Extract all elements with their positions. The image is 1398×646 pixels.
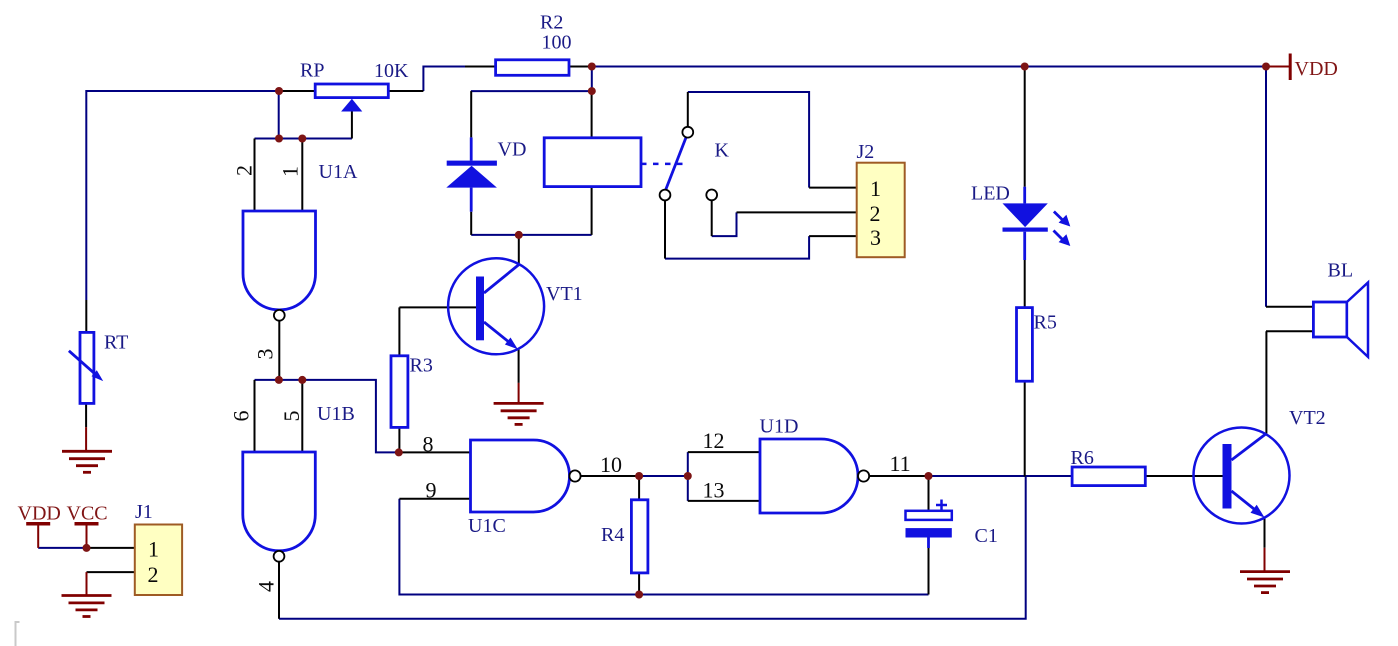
svg-text:VCC: VCC bbox=[67, 503, 108, 525]
svg-text:2: 2 bbox=[148, 562, 159, 587]
svg-text:2: 2 bbox=[232, 165, 257, 176]
svg-text:6: 6 bbox=[229, 411, 254, 422]
svg-text:1: 1 bbox=[278, 166, 303, 177]
svg-text:12: 12 bbox=[703, 428, 725, 453]
svg-text:11: 11 bbox=[890, 451, 911, 476]
svg-text:U1C: U1C bbox=[468, 515, 506, 537]
svg-text:3: 3 bbox=[870, 225, 881, 250]
svg-text:R4: R4 bbox=[601, 524, 624, 546]
svg-text:J2: J2 bbox=[857, 141, 875, 163]
svg-text:RP: RP bbox=[300, 60, 324, 82]
svg-text:8: 8 bbox=[423, 432, 434, 457]
svg-text:BL: BL bbox=[1328, 260, 1354, 282]
svg-text:U1B: U1B bbox=[317, 403, 355, 425]
svg-text:J1: J1 bbox=[135, 501, 153, 523]
svg-text:10: 10 bbox=[600, 452, 622, 477]
svg-text:5: 5 bbox=[279, 411, 304, 422]
svg-text:RT: RT bbox=[104, 332, 128, 354]
svg-text:VD: VD bbox=[498, 139, 527, 161]
svg-text:10K: 10K bbox=[374, 60, 409, 82]
svg-text:VDD: VDD bbox=[18, 503, 61, 525]
svg-text:C1: C1 bbox=[975, 525, 998, 547]
svg-text:R6: R6 bbox=[1071, 447, 1094, 469]
svg-text:2: 2 bbox=[870, 201, 881, 226]
svg-text:1: 1 bbox=[870, 176, 881, 201]
svg-text:13: 13 bbox=[703, 478, 725, 503]
svg-text:1: 1 bbox=[148, 537, 159, 562]
svg-text:R5: R5 bbox=[1034, 312, 1057, 334]
svg-text:4: 4 bbox=[254, 581, 279, 592]
svg-text:LED: LED bbox=[971, 183, 1010, 205]
svg-text:R3: R3 bbox=[410, 355, 433, 377]
svg-text:VT1: VT1 bbox=[546, 283, 583, 305]
svg-text:3: 3 bbox=[253, 349, 278, 360]
svg-text:VT2: VT2 bbox=[1289, 407, 1326, 429]
svg-text:U1D: U1D bbox=[760, 416, 799, 438]
svg-text:VDD: VDD bbox=[1295, 58, 1338, 80]
svg-text:R2: R2 bbox=[540, 12, 563, 34]
svg-text:100: 100 bbox=[542, 32, 572, 54]
svg-text:K: K bbox=[715, 140, 730, 162]
svg-text:9: 9 bbox=[426, 478, 437, 503]
svg-text:U1A: U1A bbox=[319, 161, 358, 183]
